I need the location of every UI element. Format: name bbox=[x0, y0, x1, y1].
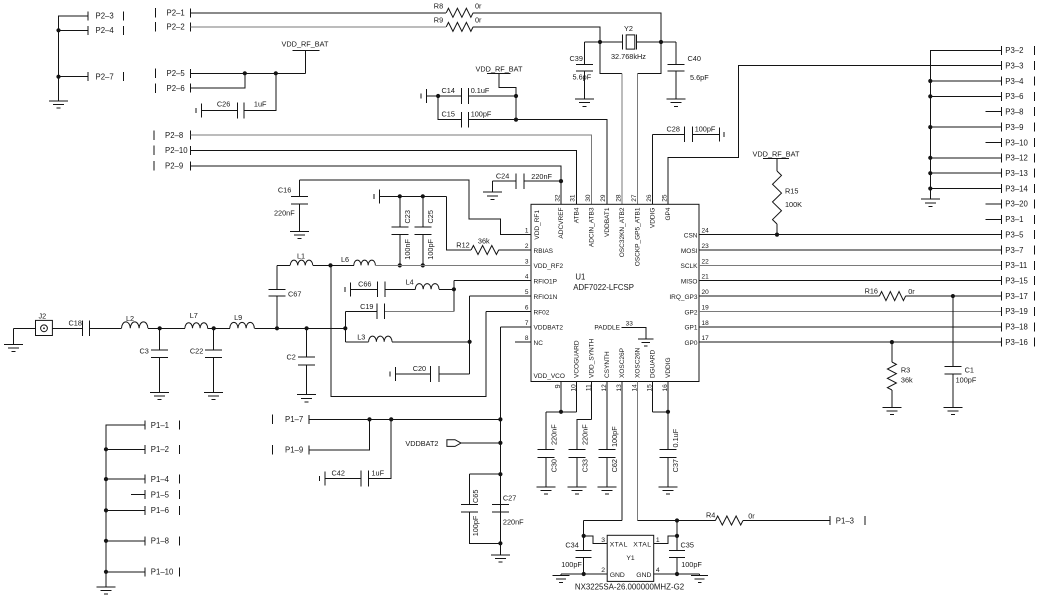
svg-text:P2–10: P2–10 bbox=[165, 146, 188, 155]
ground C30 bbox=[537, 486, 556, 488]
resistor R12 bbox=[471, 245, 499, 254]
svg-text:P2–9: P2–9 bbox=[165, 162, 183, 171]
junction P3 bus row 2 bbox=[928, 79, 932, 83]
wire pin 14 XOSC26N bbox=[636, 382, 638, 521]
resistor R15 bbox=[776, 168, 778, 171]
svg-text:XOSC26P: XOSC26P bbox=[619, 348, 626, 378]
svg-text:P3–6: P3–6 bbox=[1005, 92, 1023, 101]
svg-text:31: 31 bbox=[570, 194, 577, 202]
svg-text:2: 2 bbox=[601, 567, 605, 574]
connector P3 pin P3-10 bbox=[1001, 138, 1003, 147]
junction P1-9 bbox=[367, 417, 371, 421]
connector P1 pin P1-8 bbox=[144, 536, 146, 545]
connector P3 pin P3-12 bbox=[1001, 153, 1003, 162]
svg-text:0r: 0r bbox=[475, 2, 482, 11]
svg-text:P3–19: P3–19 bbox=[1005, 307, 1028, 316]
svg-text:C19: C19 bbox=[360, 302, 373, 311]
svg-text:NC: NC bbox=[534, 340, 544, 347]
svg-text:P3–8: P3–8 bbox=[1005, 108, 1023, 117]
svg-text:RFIO1N: RFIO1N bbox=[534, 294, 558, 301]
IC U1 ADF7022-LFCSP body bbox=[531, 204, 699, 381]
svg-text:C37: C37 bbox=[671, 459, 680, 472]
svg-text:33: 33 bbox=[626, 320, 634, 327]
connector P3 pin P3-4 bbox=[1001, 77, 1003, 86]
svg-text:100K: 100K bbox=[785, 200, 802, 209]
svg-text:P1–7: P1–7 bbox=[285, 415, 303, 424]
wire CSN to P3-5 bbox=[699, 234, 1002, 236]
resistor R9 bbox=[446, 22, 473, 31]
svg-text:17: 17 bbox=[702, 335, 710, 342]
svg-text:C27: C27 bbox=[503, 493, 516, 502]
svg-text:220nF: 220nF bbox=[580, 424, 589, 445]
svg-text:VDDBAT2: VDDBAT2 bbox=[534, 325, 564, 332]
capacitor C19 bbox=[384, 310, 454, 312]
capacitor C1 bbox=[952, 296, 954, 367]
svg-text:C2: C2 bbox=[287, 353, 296, 362]
svg-text:24: 24 bbox=[702, 228, 710, 235]
svg-text:VDD_RF_BAT: VDD_RF_BAT bbox=[282, 40, 329, 49]
wire Y1 pin 1 stub bbox=[654, 536, 677, 544]
svg-text:20: 20 bbox=[702, 289, 710, 296]
svg-text:R16: R16 bbox=[865, 287, 878, 296]
capacitor C15 bbox=[438, 96, 461, 120]
wire IRQ_GP3 to R16 bbox=[699, 295, 879, 297]
wire P2-5 net bbox=[191, 72, 306, 74]
svg-text:GP4: GP4 bbox=[665, 207, 672, 220]
connector P3 pin P3-9 bbox=[1001, 123, 1003, 132]
wire Y2 right node bbox=[637, 41, 662, 43]
ground P3 bus bbox=[929, 197, 931, 199]
svg-text:C39: C39 bbox=[570, 54, 583, 63]
ground C2 bbox=[297, 394, 316, 396]
svg-text:32: 32 bbox=[554, 194, 561, 202]
inductor L6 bbox=[354, 260, 376, 265]
svg-text:0r: 0r bbox=[475, 16, 482, 25]
connector P1 pin P1-9 bbox=[272, 445, 274, 455]
svg-text:L2: L2 bbox=[126, 314, 134, 323]
capacitor C42 bbox=[324, 472, 326, 486]
junction pin9 pin10 bbox=[559, 410, 563, 414]
junction Y2 right bbox=[659, 40, 663, 44]
svg-text:GP1: GP1 bbox=[684, 325, 697, 332]
capacitor C3 bbox=[159, 328, 161, 350]
junction P1 bus P1-10 bbox=[104, 570, 108, 574]
junction Y1 pin3 node bbox=[582, 534, 586, 538]
junction C2 bbox=[305, 326, 309, 330]
wire SCLK to P3-11 bbox=[699, 264, 1002, 266]
svg-text:ADCIN_ATB3: ADCIN_ATB3 bbox=[589, 207, 596, 247]
wire GP1 to P3-18 bbox=[699, 326, 1002, 328]
junction C65 top bbox=[498, 472, 502, 476]
capacitor C33 bbox=[591, 382, 593, 420]
capacitor C34 bbox=[583, 536, 585, 551]
resistor R3 bbox=[891, 342, 893, 362]
junction P3 bus row 5 bbox=[928, 125, 932, 129]
pin 8 NC stub bbox=[515, 341, 531, 343]
wire Y2 right to pin 27 bbox=[637, 42, 661, 73]
ground R3 bbox=[882, 407, 901, 409]
ground C40 bbox=[667, 98, 686, 100]
svg-text:P3–18: P3–18 bbox=[1005, 323, 1028, 332]
svg-text:L6: L6 bbox=[341, 255, 349, 264]
ground C16 bbox=[290, 231, 309, 233]
capacitor C20 bbox=[395, 367, 397, 381]
junction C65 bottom bbox=[498, 541, 502, 545]
crystal Y1 body bbox=[607, 535, 654, 581]
resistor R16 bbox=[879, 292, 905, 301]
svg-text:100pF: 100pF bbox=[471, 515, 480, 536]
junction C67 main line bbox=[275, 326, 279, 330]
svg-text:0.1uF: 0.1uF bbox=[471, 86, 490, 95]
connector P3 pin P3-3 bbox=[1001, 61, 1003, 70]
wire GP0 to P3-16 bbox=[699, 341, 1002, 343]
svg-text:220nF: 220nF bbox=[274, 209, 295, 218]
svg-text:29: 29 bbox=[600, 194, 607, 202]
ground VDDBAT2 net bbox=[499, 543, 501, 555]
wire L2-L7 bbox=[148, 327, 185, 329]
svg-text:L4: L4 bbox=[406, 278, 414, 287]
ground J2 bbox=[13, 328, 15, 344]
svg-text:R9: R9 bbox=[434, 16, 443, 25]
connector P3 pin P3-15 bbox=[1001, 276, 1003, 285]
wire L7-L9 bbox=[208, 327, 230, 329]
svg-text:GND: GND bbox=[636, 572, 651, 579]
svg-text:C15: C15 bbox=[442, 110, 455, 119]
connector P3 pin P3-11 bbox=[1001, 261, 1003, 270]
junction R3 on GP0 bbox=[890, 340, 894, 344]
connector P3 pin P3-18 bbox=[1001, 322, 1003, 331]
svg-text:P3–20: P3–20 bbox=[1005, 200, 1028, 209]
junction C35 gnd bbox=[675, 572, 679, 576]
capacitor C28 bbox=[652, 134, 654, 204]
svg-text:Y2: Y2 bbox=[624, 24, 633, 33]
svg-text:28: 28 bbox=[616, 194, 623, 202]
capacitor C27 bbox=[492, 504, 509, 506]
svg-text:C14: C14 bbox=[442, 86, 455, 95]
svg-text:P1–9: P1–9 bbox=[285, 446, 303, 455]
capacitor C65 bbox=[470, 473, 501, 475]
wire P2-9 to pin 32 bbox=[191, 166, 562, 205]
wire Y1 right vertical bbox=[676, 521, 678, 536]
svg-text:C28: C28 bbox=[667, 125, 680, 134]
svg-text:P1–1: P1–1 bbox=[151, 421, 169, 430]
svg-text:R12: R12 bbox=[456, 241, 469, 250]
junction P3 bus row 3 bbox=[928, 94, 932, 98]
svg-text:5: 5 bbox=[525, 289, 529, 296]
wire R9 to Y2 left node bbox=[473, 27, 600, 42]
wire pin 13 XOSC26P bbox=[621, 382, 623, 521]
wire Y1 pin 4 GND bbox=[654, 573, 700, 575]
ground C22 bbox=[204, 392, 223, 394]
svg-text:P3–14: P3–14 bbox=[1005, 184, 1028, 193]
svg-text:SCLK: SCLK bbox=[681, 263, 699, 270]
ground C23 C25 (sideways) bbox=[379, 189, 381, 203]
connector P3 pin P3-20 bbox=[1001, 199, 1003, 208]
wire pin 5 RFIO1N bbox=[470, 295, 531, 297]
svg-text:PADDLE: PADDLE bbox=[594, 325, 620, 332]
wire P2-10 to pin 31 bbox=[191, 150, 577, 204]
junction P3 bus row 8 bbox=[928, 171, 932, 175]
wire L1-L6 bbox=[313, 264, 354, 266]
wire Y2 left node bbox=[600, 41, 623, 43]
connector P1 pin P1-10 bbox=[144, 567, 146, 576]
wire pin 7 VDDBAT2 bbox=[500, 326, 531, 328]
svg-text:VDD_RF1: VDD_RF1 bbox=[534, 210, 541, 240]
connector P3 pin P3-6 bbox=[1001, 92, 1003, 101]
junction L4 pin4 bbox=[452, 287, 456, 291]
svg-text:3: 3 bbox=[525, 258, 529, 265]
junction C24 pin32 bbox=[559, 179, 563, 183]
svg-text:DGUARD: DGUARD bbox=[650, 350, 657, 378]
svg-text:C3: C3 bbox=[140, 347, 149, 356]
inductor L9 bbox=[230, 322, 255, 328]
svg-text:6: 6 bbox=[525, 304, 529, 311]
connector P3 pin P3-8 bbox=[1001, 107, 1003, 116]
wire Y1 pin 3 stub bbox=[584, 536, 608, 544]
capacitor C25 bbox=[422, 196, 424, 227]
junction C23 bottom bbox=[398, 263, 402, 267]
svg-text:C66: C66 bbox=[358, 279, 371, 288]
svg-text:100pF: 100pF bbox=[956, 376, 977, 385]
svg-text:U1: U1 bbox=[575, 273, 585, 282]
svg-text:VCOGUARD: VCOGUARD bbox=[573, 340, 580, 378]
wire Y2 left to pin 28 bbox=[600, 42, 622, 73]
svg-text:P3–5: P3–5 bbox=[1005, 230, 1024, 239]
svg-text:23: 23 bbox=[702, 243, 710, 250]
ground P2 bus bbox=[49, 100, 68, 102]
connector P1 pin P1-6 bbox=[144, 506, 146, 515]
junction C3 bbox=[158, 326, 162, 330]
svg-text:P1–8: P1–8 bbox=[151, 537, 169, 546]
junction C25 bottom bbox=[421, 263, 425, 267]
svg-text:VDDIG: VDDIG bbox=[665, 357, 672, 378]
svg-text:OSC32KN_ATB2: OSC32KN_ATB2 bbox=[619, 207, 626, 257]
junction C22 bbox=[212, 326, 216, 330]
wire MISO to P3-15 bbox=[699, 280, 1002, 282]
wire pin 9 VDD_VCO bbox=[560, 382, 562, 412]
svg-text:R3: R3 bbox=[901, 366, 910, 375]
svg-text:P2–1: P2–1 bbox=[167, 9, 185, 18]
junction L3 pin5 bbox=[468, 340, 472, 344]
svg-text:P2–6: P2–6 bbox=[167, 84, 185, 93]
svg-text:P1–10: P1–10 bbox=[151, 568, 174, 577]
svg-text:C65: C65 bbox=[471, 490, 480, 503]
svg-text:P3–3: P3–3 bbox=[1005, 61, 1023, 70]
ground C37 bbox=[658, 486, 677, 488]
junction C25 top bbox=[421, 194, 425, 198]
capacitor C2 bbox=[306, 328, 308, 357]
svg-text:100pF: 100pF bbox=[426, 238, 435, 259]
wire P2-2 to R9 bbox=[191, 26, 447, 28]
wire pin 4 RFIO1P bbox=[454, 280, 531, 282]
svg-text:1: 1 bbox=[656, 537, 660, 544]
svg-text:5.6pF: 5.6pF bbox=[690, 73, 709, 82]
svg-text:C24: C24 bbox=[496, 172, 509, 181]
svg-text:26: 26 bbox=[646, 194, 653, 202]
capacitor C14 bbox=[425, 89, 427, 103]
svg-text:21: 21 bbox=[702, 274, 710, 281]
ground P1 bus bbox=[97, 586, 116, 588]
inductor L7 bbox=[185, 323, 208, 329]
connector P2 pin P2-3 bbox=[87, 11, 89, 20]
svg-text:C25: C25 bbox=[426, 210, 435, 223]
wire P2-3/P2-4/P2-7 ground bus bbox=[59, 16, 89, 101]
svg-text:P2–8: P2–8 bbox=[165, 131, 183, 140]
svg-text:C40: C40 bbox=[688, 54, 701, 63]
connector P3 pin P3-13 bbox=[1001, 169, 1003, 178]
capacitor C66 bbox=[350, 282, 352, 296]
junction C19 main line bbox=[343, 326, 347, 330]
svg-text:100pF: 100pF bbox=[471, 110, 492, 119]
svg-text:8: 8 bbox=[525, 335, 529, 342]
svg-text:P3–4: P3–4 bbox=[1005, 77, 1024, 86]
capacitor C26 bbox=[201, 104, 203, 118]
inductor L1 bbox=[277, 264, 290, 266]
svg-text:P3–13: P3–13 bbox=[1005, 169, 1028, 178]
svg-text:VDD_RF2: VDD_RF2 bbox=[534, 263, 564, 270]
svg-text:XOSC26N: XOSC26N bbox=[634, 347, 641, 378]
connector P2 pin P2-6 bbox=[155, 83, 157, 93]
junction P1-7 pin7 bbox=[498, 417, 502, 421]
connector P1 pin P1-5 bbox=[144, 490, 146, 499]
svg-text:P3–16: P3–16 bbox=[1005, 338, 1028, 347]
svg-text:100pF: 100pF bbox=[681, 560, 702, 569]
svg-text:C26: C26 bbox=[217, 100, 230, 109]
connector P1 pin P1-3 bbox=[829, 516, 831, 525]
wire MOSI to P3-7 bbox=[699, 249, 1002, 251]
svg-text:VDD_RF_BAT: VDD_RF_BAT bbox=[753, 150, 800, 159]
svg-text:P3–1: P3–1 bbox=[1005, 215, 1023, 224]
ground Y1 pin 4 bbox=[699, 574, 701, 575]
svg-text:J2: J2 bbox=[39, 311, 47, 320]
svg-text:ADCVREF: ADCVREF bbox=[558, 207, 565, 238]
svg-text:VDDIG: VDDIG bbox=[650, 208, 657, 229]
wire P2-8 to pin 30 bbox=[191, 135, 592, 204]
wire C16 to pin 1 VDD_RF1 bbox=[299, 180, 531, 235]
svg-text:4: 4 bbox=[525, 274, 529, 281]
capacitor C23 bbox=[399, 196, 401, 227]
svg-text:ATB4: ATB4 bbox=[573, 207, 580, 223]
svg-text:100nF: 100nF bbox=[403, 238, 412, 259]
svg-text:P3–12: P3–12 bbox=[1005, 154, 1028, 163]
svg-text:RBIAS: RBIAS bbox=[534, 248, 554, 255]
junction C15 right bbox=[514, 118, 518, 122]
connector P1 pin P1-2 bbox=[144, 445, 146, 454]
junction C23 top bbox=[398, 194, 402, 198]
connector P3 pin P3-5 bbox=[1001, 230, 1003, 239]
wire P3-10 stub bbox=[986, 141, 1002, 143]
svg-text:C33: C33 bbox=[580, 459, 589, 472]
junction XOSC26N R4 bbox=[675, 518, 679, 522]
ground Y1 pin 2 bbox=[560, 574, 562, 575]
junction C42 bbox=[389, 417, 393, 421]
svg-text:P2–2: P2–2 bbox=[167, 23, 185, 32]
ground C33 bbox=[567, 486, 586, 488]
svg-text:0r: 0r bbox=[748, 512, 755, 521]
svg-text:4: 4 bbox=[656, 567, 660, 574]
svg-text:L3: L3 bbox=[357, 332, 365, 341]
svg-text:GND: GND bbox=[610, 572, 625, 579]
inductor L3 bbox=[344, 328, 346, 342]
svg-text:ADF7022-LFCSP: ADF7022-LFCSP bbox=[573, 283, 634, 292]
connector P2 pin P2-4 bbox=[87, 26, 89, 35]
wire L9 to node bbox=[254, 327, 345, 329]
svg-text:1uF: 1uF bbox=[372, 469, 385, 478]
capacitor C37 bbox=[667, 412, 669, 450]
svg-text:OSCKP_GP5_ATB1: OSCKP_GP5_ATB1 bbox=[634, 207, 641, 266]
wire pin 6 RFO2 loop bbox=[486, 310, 531, 312]
svg-text:220nF: 220nF bbox=[550, 424, 559, 445]
svg-text:C35: C35 bbox=[681, 541, 694, 550]
junction VDDBAT2 bbox=[498, 441, 502, 445]
svg-text:NX3225SA-26.000000MHZ-G2: NX3225SA-26.000000MHZ-G2 bbox=[575, 583, 684, 592]
ground C62 bbox=[597, 486, 616, 488]
svg-text:100pF: 100pF bbox=[695, 125, 716, 134]
wire Y1 pin 2 GND bbox=[561, 573, 607, 575]
wire R16 to P3-17 bbox=[906, 295, 1002, 297]
junction P3 bus row 9 bbox=[928, 186, 932, 190]
svg-text:1uF: 1uF bbox=[254, 100, 267, 109]
junction L1 L6 RFO2 bbox=[328, 263, 332, 267]
svg-text:P3–7: P3–7 bbox=[1005, 246, 1023, 255]
svg-text:VDDBAT1: VDDBAT1 bbox=[604, 207, 611, 237]
svg-text:C34: C34 bbox=[565, 541, 578, 550]
junction P2-4 bbox=[56, 28, 60, 32]
wire VDDBAT1 to pin 29 bbox=[515, 96, 517, 120]
svg-text:0r: 0r bbox=[908, 287, 915, 296]
junction Y2 left bbox=[598, 40, 602, 44]
svg-text:P3–15: P3–15 bbox=[1005, 277, 1028, 286]
svg-text:19: 19 bbox=[702, 304, 710, 311]
capacitor C22 bbox=[213, 328, 215, 350]
svg-text:L7: L7 bbox=[190, 311, 198, 320]
svg-text:L1: L1 bbox=[297, 252, 305, 261]
svg-text:VDD_VCO: VDD_VCO bbox=[534, 373, 565, 380]
svg-text:RFIO1P: RFIO1P bbox=[534, 279, 557, 286]
svg-text:P3–10: P3–10 bbox=[1005, 138, 1028, 147]
svg-text:P1–2: P1–2 bbox=[151, 445, 169, 454]
connector P3 pin P3-17 bbox=[1001, 292, 1003, 301]
wire P3 ground bus bbox=[930, 50, 1001, 197]
connector P2 pin P2-1 bbox=[155, 8, 157, 18]
wire P1-9 up bbox=[309, 419, 369, 449]
wire P2-6 branch bbox=[191, 73, 245, 88]
svg-text:XTAL: XTAL bbox=[610, 542, 628, 549]
junction P2-7 bbox=[56, 75, 60, 79]
wire P3-8 stub bbox=[986, 111, 1002, 113]
ground C39 bbox=[575, 98, 594, 100]
connector P3 pin P3-19 bbox=[1001, 307, 1003, 316]
svg-text:MISO: MISO bbox=[681, 279, 698, 286]
junction P1 bus P1-4 bbox=[104, 477, 108, 481]
svg-text:P2–4: P2–4 bbox=[96, 26, 115, 35]
svg-text:25: 25 bbox=[661, 194, 668, 202]
ground C28 (sideways) bbox=[719, 127, 721, 141]
svg-text:CSYNTH: CSYNTH bbox=[604, 351, 611, 378]
junction C1 on P3-17 bbox=[951, 294, 955, 298]
svg-text:P3–2: P3–2 bbox=[1005, 46, 1023, 55]
svg-text:C22: C22 bbox=[190, 347, 203, 356]
wire R8 to Y2 right node bbox=[473, 13, 661, 42]
svg-text:C1: C1 bbox=[965, 366, 974, 375]
connector P1 pin P1-1 bbox=[144, 421, 146, 430]
junction P2-6 on P2-5 bbox=[243, 71, 247, 75]
svg-text:7: 7 bbox=[525, 320, 529, 327]
resistor R8 bbox=[446, 8, 473, 17]
svg-text:C23: C23 bbox=[403, 210, 412, 223]
svg-text:XTAL: XTAL bbox=[633, 542, 651, 549]
svg-text:P2–5: P2–5 bbox=[167, 69, 186, 78]
